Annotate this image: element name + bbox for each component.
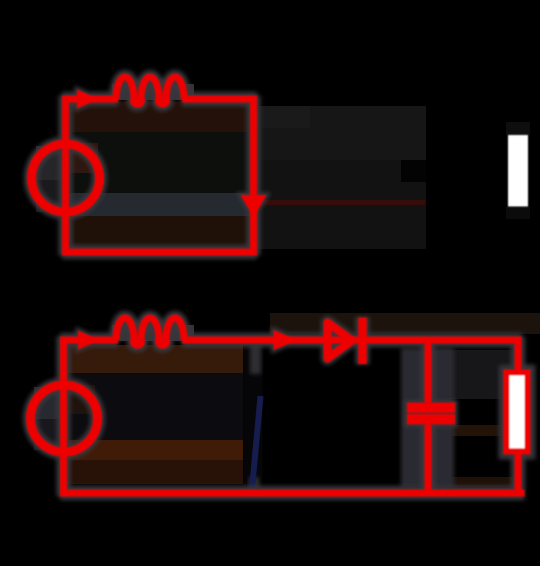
ghost backing behind load resistor bbox=[498, 364, 536, 460]
load resistor R (active) bbox=[506, 373, 527, 452]
ghost backdrop behind inductor L2 bbox=[112, 325, 194, 341]
ghost stubs around inactive load bbox=[506, 122, 530, 135]
switch SW lever (dark blue) bbox=[252, 396, 261, 489]
ghost band interior top circuit dark bbox=[69, 132, 251, 193]
ghost band interior top circuit brown upper bbox=[69, 102, 251, 133]
ghost dark red line bbox=[257, 200, 425, 205]
ghost band interior top circuit brown lower bbox=[69, 216, 251, 250]
ghost switch stub below top junction bbox=[250, 343, 261, 374]
diode D1 triangle bbox=[328, 323, 353, 359]
wire capacitor branch upper bbox=[425, 337, 432, 404]
ghost patch inside source I2 left bbox=[34, 387, 60, 419]
circuit 2 red wires bbox=[60, 318, 525, 497]
ghost switch stub above bottom junction bbox=[249, 477, 259, 490]
ghost band interior bottom circuit brown mid bbox=[67, 440, 243, 460]
ghost grey glow layer circuit 1 bbox=[32, 77, 267, 256]
wire top-left segment (circuit 2) bbox=[60, 337, 118, 344]
ghost patch inside source I1 right (brown) bbox=[69, 143, 98, 173]
current arrow on right wire (circuit 1) bbox=[241, 195, 267, 218]
ghost backing behind capacitor C1 bbox=[401, 348, 454, 488]
ghost patch inside source I2 right (brown) bbox=[67, 385, 95, 414]
capacitor C1 top plate bbox=[407, 403, 455, 413]
wire bottom (circuit 2) bbox=[60, 490, 525, 497]
ghost band interior bottom circuit brown upper bbox=[67, 345, 243, 373]
current arrow on top wire (circuit 2) bbox=[78, 331, 100, 350]
wire right lower (circuit 2) bbox=[515, 451, 522, 497]
switch SW dark column bbox=[244, 343, 263, 491]
ghost band interior top circuit grey bbox=[69, 193, 251, 216]
wire top-right segment (circuit 2) bbox=[188, 337, 522, 344]
load resistor R (inactive, white) bbox=[508, 135, 528, 207]
ghost brown row between capacitor and load bbox=[432, 425, 517, 436]
current arrow on top wire (circuit 1) bbox=[77, 90, 99, 109]
wire bottom (circuit 1) bbox=[62, 249, 257, 256]
ghost block between capacitor and load bbox=[432, 350, 517, 399]
ghost patch inside source I1 left bbox=[36, 146, 62, 180]
ghost band above bottom circuit bbox=[270, 313, 540, 334]
inductor L2 bbox=[116, 318, 184, 345]
wire right (circuit 1) bbox=[250, 96, 257, 256]
wire capacitor branch lower bbox=[425, 424, 432, 496]
ghost brown row lower between capacitor and load bbox=[432, 477, 517, 487]
inductor L1 bbox=[116, 77, 184, 104]
current source I2 bbox=[31, 385, 98, 452]
wire left (circuit 2) bbox=[60, 337, 67, 497]
capacitor C1 bottom plate bbox=[407, 414, 455, 424]
wire top-left segment (circuit 1) bbox=[62, 96, 118, 103]
ghost band interior bottom circuit dark bbox=[67, 373, 243, 440]
wire top-right segment (circuit 1) bbox=[188, 96, 257, 103]
ghost backdrop behind inductor L1 bbox=[112, 84, 194, 100]
wire right upper (circuit 2) bbox=[515, 337, 522, 374]
current source I1 bbox=[32, 144, 100, 212]
diode D1 cathode bar bbox=[358, 318, 367, 365]
wire left (circuit 1) bbox=[62, 96, 69, 256]
ghost dark notch bbox=[401, 160, 426, 182]
ghost band interior bottom circuit brown lower bbox=[67, 460, 243, 484]
ghost grey glow layer circuit 2 bbox=[31, 317, 528, 497]
ghost block right of top circuit bbox=[257, 106, 426, 249]
circuit 1 red wires bbox=[62, 77, 257, 256]
current arrow before diode (circuit 2) bbox=[274, 330, 298, 350]
